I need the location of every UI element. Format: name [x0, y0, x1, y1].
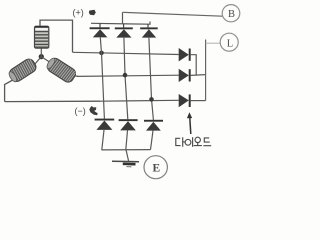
terminal E	[144, 156, 167, 179]
diode D7 (trio)	[179, 48, 197, 75]
diode D4 (-)	[95, 119, 115, 150]
wire bottom bus (-)	[102, 149, 151, 151]
wire L bus	[205, 40, 207, 101]
node dot2 phase2/column2	[123, 73, 128, 78]
svg-text:L: L	[227, 38, 233, 49]
wire cathode bus (+)	[91, 22, 150, 25]
wire phase3 left loop	[5, 79, 100, 102]
wire to terminal B	[123, 12, 223, 16]
pointer blob (-)	[89, 106, 98, 115]
ground	[112, 161, 139, 167]
terminal L	[220, 33, 238, 51]
svg-text:(−): (−)	[75, 106, 86, 116]
wire B riser	[122, 12, 124, 23]
diode D1 (+)	[90, 23, 110, 37]
svg-text:E: E	[153, 163, 161, 175]
wire phase1 top (stator coil top lead to corner)	[40, 20, 73, 52]
wire Y to left coil	[35, 57, 42, 65]
wire row1 (phase 1 horizontal)	[73, 52, 179, 54]
diode D9 (trio)	[179, 94, 206, 107]
wire Y to right coil	[41, 57, 49, 62]
node dot1 phase1/column1	[99, 51, 104, 56]
wire column3	[149, 38, 154, 120]
diode D2 (+)	[115, 24, 133, 38]
pointer blob (+)	[89, 10, 96, 15]
stator Y junction dot	[39, 54, 44, 59]
wire row2 (phase 2 horizontal)	[77, 75, 179, 76]
diode D3 (+)	[140, 24, 158, 38]
stator coil top (vertical cylinder)	[35, 26, 49, 48]
diode D5 (-)	[119, 119, 138, 150]
stator coil right (tilted cylinder)	[45, 56, 78, 84]
diode D8 (trio)	[179, 69, 206, 82]
terminal B	[222, 5, 240, 22]
wire ground drop	[126, 150, 129, 161]
wire row3 (phase 3 horizontal)	[100, 99, 179, 102]
stator coil left (tilted cylinder)	[7, 57, 38, 84]
svg-text:(+): (+)	[73, 8, 84, 18]
diode D6 (-)	[144, 120, 163, 150]
wire column1	[100, 37, 104, 118]
wire Y to top coil	[40, 48, 42, 57]
label 다이오드 (Korean, drawn strokes)	[176, 137, 211, 147]
wire L connector (faint)	[206, 42, 221, 44]
node dot3 phase3/column3	[149, 97, 154, 102]
label arrow (diode pointer)	[187, 112, 192, 134]
svg-text:B: B	[228, 9, 235, 20]
wire right coil to row2	[76, 75, 79, 77]
wire column2	[124, 38, 128, 120]
